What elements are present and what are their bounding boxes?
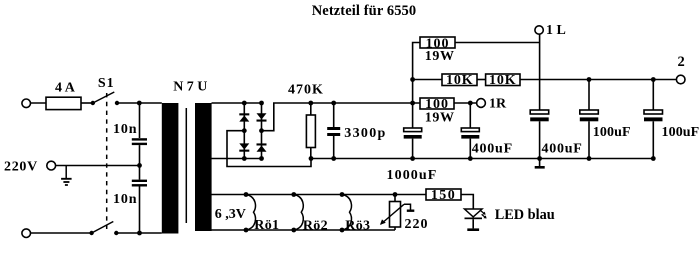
svg-text:100uF: 100uF — [662, 125, 700, 140]
svg-text:400uF: 400uF — [472, 142, 513, 157]
svg-text:2: 2 — [678, 54, 685, 70]
svg-text:150: 150 — [431, 188, 456, 203]
svg-text:1 L: 1 L — [546, 23, 566, 38]
svg-text:4 A: 4 A — [55, 80, 76, 95]
svg-text:1000uF: 1000uF — [387, 168, 438, 183]
svg-text:1R: 1R — [489, 97, 507, 112]
svg-text:100uF: 100uF — [593, 125, 631, 140]
svg-text:220V: 220V — [4, 160, 38, 175]
svg-text:S1: S1 — [98, 76, 115, 91]
svg-text:3300p: 3300p — [344, 126, 386, 141]
svg-text:LED blau: LED blau — [495, 207, 555, 223]
svg-text:Netzteil für 6550: Netzteil für 6550 — [312, 3, 417, 19]
svg-text:10K: 10K — [446, 73, 474, 88]
svg-text:220: 220 — [405, 217, 429, 232]
svg-text:10n: 10n — [113, 192, 138, 207]
svg-text:Rö1: Rö1 — [254, 218, 279, 233]
svg-text:Rö2: Rö2 — [303, 218, 328, 233]
svg-text:10K: 10K — [489, 73, 517, 88]
svg-text:10n: 10n — [113, 122, 138, 137]
svg-text:19W: 19W — [425, 49, 455, 64]
svg-text:6 ,3V: 6 ,3V — [215, 207, 246, 222]
svg-text:470K: 470K — [288, 82, 324, 97]
svg-text:N 7 U: N 7 U — [173, 79, 207, 94]
svg-text:400uF: 400uF — [542, 142, 583, 157]
svg-text:19W: 19W — [425, 110, 455, 125]
svg-text:Rö3: Rö3 — [345, 218, 370, 233]
